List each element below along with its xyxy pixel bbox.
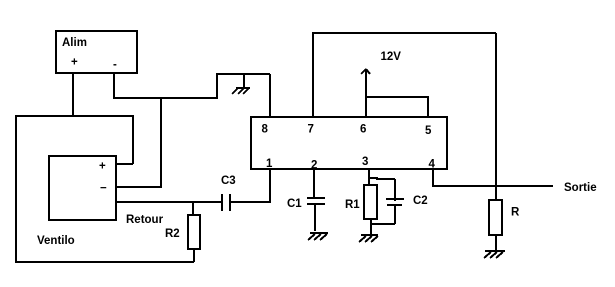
12V supply arrow to pin 6: [361, 69, 370, 116]
capacitor C3: [222, 194, 230, 211]
wire Alim + down to fan enclosure: [72, 73, 74, 116]
svg-text:+: +: [71, 57, 78, 69]
svg-text:Sortie: Sortie: [564, 182, 597, 194]
svg-text:3: 3: [362, 156, 368, 168]
svg-text:5: 5: [425, 125, 432, 137]
ground chassis symbol under C1: [308, 233, 328, 240]
ground chassis symbol near pin 8: [232, 88, 250, 94]
svg-text:R1: R1: [345, 199, 360, 211]
wire pin 4 to output Sortie: [433, 169, 553, 186]
fan motor box: [49, 156, 116, 220]
svg-text:6: 6: [360, 124, 366, 136]
wire ground rail branch down to fan motor minus: [116, 98, 161, 187]
svg-text:+: +: [99, 161, 106, 173]
wire R1 bottom to ground: [370, 219, 372, 234]
svg-text:C2: C2: [413, 195, 428, 207]
resistor R2: [188, 202, 200, 262]
svg-text:1: 1: [266, 158, 273, 170]
wire pin 3 to R1: [368, 169, 370, 185]
wire pin 7 to 12V rail: [312, 32, 314, 116]
svg-text:7: 7: [308, 124, 314, 136]
svg-text:4: 4: [429, 159, 436, 171]
svg-text:12V: 12V: [381, 51, 402, 63]
svg-text:Ventilo: Ventilo: [37, 235, 75, 247]
svg-text:C3: C3: [221, 175, 236, 187]
wire Retour from motor to C3: [116, 201, 221, 203]
wire pin 3 node to C2: [369, 178, 395, 179]
wire Alim - to ground rail: [114, 73, 270, 98]
resistor R: [489, 200, 502, 250]
ground stub near pin 8: [243, 74, 245, 87]
wire C3 to pin 1: [231, 169, 270, 202]
12V right rail down to output node: [495, 33, 497, 201]
svg-text:2: 2: [311, 160, 317, 172]
fan enclosure Ventilo: [16, 116, 194, 262]
power supply box Alim: [56, 31, 137, 73]
svg-text:-: -: [113, 59, 117, 71]
wire ground rail to pin 8: [269, 74, 271, 116]
capacitor C1: [307, 198, 325, 231]
wire arrow node to pin 5: [366, 97, 428, 116]
ground chassis symbol under R: [484, 251, 505, 258]
svg-text:8: 8: [262, 124, 269, 136]
wire C2 bottom to R1 bottom: [371, 223, 395, 225]
svg-text:Retour: Retour: [126, 214, 164, 226]
IC box U1: [251, 117, 447, 169]
ground chassis symbol under R1: [359, 235, 378, 242]
svg-text:Alim: Alim: [62, 37, 87, 49]
resistor R1: [364, 185, 377, 219]
svg-text:−: −: [100, 183, 107, 195]
svg-text:C1: C1: [287, 198, 302, 210]
svg-text:R: R: [511, 207, 520, 219]
svg-text:R2: R2: [165, 228, 180, 240]
wire pin 2 to C1: [313, 169, 315, 198]
12V top rail: [313, 32, 496, 34]
wire motor plus terminal: [116, 163, 133, 165]
capacitor C2: [386, 179, 404, 224]
